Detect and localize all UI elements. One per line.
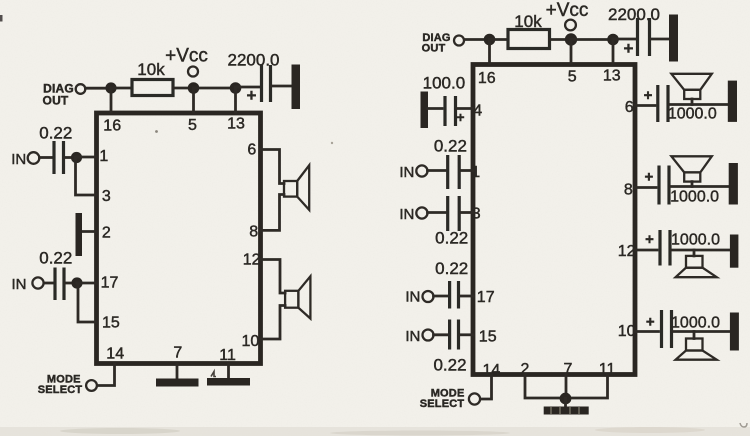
svg-text:OUT: OUT [43, 94, 69, 108]
svg-text:2200.0: 2200.0 [608, 5, 660, 24]
svg-text:IN: IN [399, 164, 414, 181]
wire node13 to C1 [236, 86, 260, 89]
terminal IN1 (U2) [416, 165, 427, 176]
pin number 2 (U2) [521, 361, 530, 378]
pin number 3 (U2) [472, 205, 481, 222]
svg-text:+: + [646, 313, 655, 330]
scan artifact faint speck 2 [331, 142, 333, 144]
wire R1 to +Vcc node [173, 87, 190, 90]
svg-text:IN: IN [405, 289, 420, 306]
svg-text:10: 10 [242, 333, 260, 350]
wire pin 16 (U2) [488, 40, 491, 64]
value label 0.22 (C8) [435, 259, 468, 278]
pin number 7 (U2) [564, 361, 573, 378]
svg-text:0.22: 0.22 [434, 137, 467, 156]
node B junction [71, 277, 82, 288]
pin number 17 (U2) [477, 289, 495, 306]
node junction at pin 16 rail [105, 82, 116, 93]
wire ground to C5 [428, 107, 442, 110]
wire node B to pin 17 [77, 282, 96, 285]
pin number 1 (U2) [471, 164, 480, 181]
wire pin 7 to ground bus [565, 375, 568, 398]
label MODE SELECT (U2) [420, 388, 465, 411]
label IN (channel 2, U2) [399, 206, 414, 223]
label IN (channel 1) [11, 151, 26, 168]
scan artifact faint mark bottom-right [740, 423, 747, 427]
svg-text:1000.0: 1000.0 [668, 106, 717, 123]
wire C8 to pin 17 (U2) [460, 295, 473, 298]
capacitor C8 0.22 [450, 281, 459, 309]
pin number 6 (U2) [625, 99, 634, 116]
wire pin 11 to ground bus [566, 375, 608, 398]
terminal DIAG OUT (U2) [454, 36, 464, 46]
pin number 16 (U1) [103, 118, 121, 135]
label IN (channel 2) [12, 276, 27, 293]
capacitor C2 0.22 [54, 141, 64, 174]
node junction at pin 5 rail (U2) [565, 33, 577, 45]
scan artifact small 4-like mark above pin11 ground [211, 372, 216, 377]
pin number 4 (U2) [473, 102, 482, 119]
ground bar (C1) [292, 65, 301, 110]
pin number 2 (U1) [102, 224, 111, 241]
capacitor C5 100.0 [445, 96, 465, 126]
svg-text:0.22: 0.22 [435, 229, 468, 248]
svg-text:+: + [645, 231, 654, 248]
svg-text:1000.0: 1000.0 [670, 189, 719, 206]
wire pin 6 to C10 [635, 104, 655, 107]
svg-text:6: 6 [625, 99, 634, 116]
svg-text:17: 17 [101, 275, 119, 292]
wire pin 6 to speaker LS1 [261, 150, 284, 184]
resistor R2 10k [508, 12, 550, 49]
capacitor C9 0.22 [450, 320, 459, 350]
svg-text:IN: IN [399, 206, 414, 223]
wire C5 to pin 4 [457, 107, 473, 110]
wire pin 2 to ground bus [525, 375, 565, 398]
power +Vcc (U2) [546, 0, 589, 30]
ground bar (bus) [544, 399, 589, 415]
svg-text:6: 6 [247, 141, 256, 158]
svg-text:+: + [247, 86, 257, 105]
svg-text:12: 12 [618, 243, 636, 260]
wire pin 14 to mode select (U2) [481, 375, 492, 399]
wire pin 13 (U2) [612, 40, 615, 64]
label MODE SELECT (U1) [38, 373, 83, 396]
value label 0.22 (C9) [433, 356, 466, 375]
wire C7 to pin 3 (U2) [461, 211, 474, 214]
scan artifact bottom dirty band [0, 427, 750, 436]
speaker LS4 [671, 156, 711, 186]
pin number 1 (U1) [99, 148, 108, 165]
svg-text:8: 8 [624, 181, 633, 198]
terminal IN1 [28, 152, 40, 164]
pin number 5 (U1) [188, 117, 197, 134]
node junction at pin 13 rail (U2) [607, 34, 619, 46]
value label 0.22 (C7) [435, 229, 468, 248]
wire speaker LS2 to pin 10 [261, 306, 285, 340]
op-amp IC U1 body [97, 113, 261, 364]
svg-text:1000.0: 1000.0 [671, 232, 720, 249]
wire IN3 to C8 [434, 295, 448, 298]
svg-text:+: + [456, 109, 464, 125]
wire pin 8 to C11 [635, 186, 656, 189]
wire node13 to C4 [613, 38, 635, 41]
ground bar (C4) [669, 15, 678, 62]
capacitor C7 0.22 [448, 196, 460, 231]
terminal MODE SELECT (U1) [86, 380, 97, 391]
wire terminal to node 16 [86, 87, 108, 90]
terminal IN4 (U2) [423, 330, 434, 341]
svg-text:5: 5 [188, 117, 197, 134]
terminal IN2 (U2) [416, 207, 427, 218]
svg-text:16: 16 [103, 118, 121, 135]
svg-text:IN: IN [405, 328, 420, 345]
svg-text:11: 11 [219, 347, 236, 364]
wire C4 to ground [651, 38, 669, 41]
svg-text:10k: 10k [137, 60, 165, 79]
capacitor C6 0.22 [448, 155, 460, 189]
wire C10 to ground [670, 103, 729, 106]
svg-text:1000.0: 1000.0 [671, 314, 720, 331]
svg-text:12: 12 [243, 251, 261, 268]
svg-text:17: 17 [477, 289, 495, 306]
svg-text:13: 13 [603, 68, 621, 85]
terminal IN3 (U2) [423, 291, 434, 302]
speaker LS3 [671, 74, 711, 105]
svg-text:5: 5 [568, 68, 577, 85]
ground bar (pin 11) [207, 378, 250, 386]
label DIAG OUT (U1) [43, 82, 74, 108]
capacitor C11 1000.0 [645, 166, 720, 206]
op-amp IC U2 body [473, 65, 635, 375]
svg-text:3: 3 [472, 205, 481, 222]
speaker LS2 [285, 276, 310, 318]
wire C12 to ground [672, 249, 731, 252]
svg-text:IN: IN [11, 151, 26, 168]
wire C1 to ground [272, 85, 292, 88]
svg-text:100.0: 100.0 [423, 74, 466, 93]
wire node5 to node13 [194, 87, 233, 90]
capacitor C1 2200.0 [228, 51, 280, 106]
pin number 10 (U1) [242, 333, 260, 350]
node A junction [71, 152, 82, 163]
wire node A to pin 1 [77, 156, 97, 159]
pin number 14 (U1) [106, 346, 124, 363]
pin number 17 (U1) [101, 275, 119, 292]
wire IN1 to C6 [428, 169, 446, 172]
scan artifact faint speck [155, 130, 158, 133]
pin number 15 (U1) [102, 315, 120, 332]
wire pin 14 to mode select [98, 364, 115, 386]
svg-text:15: 15 [102, 315, 120, 332]
pin number 14 (U2) [483, 362, 501, 379]
pin number 11 (U2) [599, 361, 616, 378]
svg-text:+Vcc: +Vcc [546, 0, 589, 21]
label DIAG OUT (U2) [422, 32, 451, 55]
capacitor C3 0.22 [55, 268, 64, 301]
wire node16 to R1 [111, 87, 132, 90]
svg-text:15: 15 [479, 329, 497, 346]
wire pin 12 to speaker LS2 [261, 260, 285, 294]
wire pin 11 to ground [227, 364, 230, 379]
label IN (channel 3, U2) [405, 289, 420, 306]
speaker LS5 [676, 250, 717, 277]
svg-text:0.22: 0.22 [39, 249, 72, 268]
capacitor bar at pin 2 [76, 213, 83, 256]
speaker LS1 [284, 165, 309, 210]
wire pin 12 to C12 [635, 249, 657, 252]
ground bar (pin 7) [156, 379, 199, 387]
svg-text:8: 8 [249, 223, 258, 240]
terminal IN2 [32, 277, 43, 288]
value label 0.22 (C2) [39, 124, 72, 143]
pin number 15 (U2) [479, 329, 497, 346]
svg-text:10k: 10k [514, 12, 542, 31]
svg-text:+: + [644, 87, 653, 104]
svg-text:10: 10 [618, 323, 636, 340]
wire pin 2 stub [81, 230, 96, 233]
wire IN1 to C2 [40, 156, 53, 159]
svg-text:1: 1 [99, 148, 108, 165]
wire C11 to ground [671, 185, 729, 188]
svg-text:3: 3 [102, 188, 111, 205]
svg-text:+: + [645, 169, 654, 186]
svg-text:14: 14 [106, 346, 124, 363]
wire node A down to pin 3 [76, 158, 97, 196]
terminal DIAG OUT (U1) [76, 84, 86, 94]
scan artifact mark top-left edge [0, 15, 3, 22]
label IN (channel 1, U2) [399, 164, 414, 181]
capacitor C13 1000.0 [646, 310, 720, 348]
value label 0.22 (C3) [39, 249, 72, 268]
pin number 5 (U2) [568, 68, 577, 85]
svg-text:16: 16 [478, 70, 496, 87]
wire C6 to pin 1 (U2) [461, 169, 474, 172]
pin number 8 (U1) [249, 223, 258, 240]
wire pin 13 [234, 88, 237, 112]
pin number 13 (U1) [227, 116, 245, 133]
wire pin 7 to ground [176, 364, 179, 379]
svg-text:0.22: 0.22 [39, 124, 72, 143]
svg-text:7: 7 [173, 344, 182, 361]
wire IN4 to C9 [434, 333, 448, 336]
pin number 16 (U2) [478, 70, 496, 87]
pin number 12 (U1) [243, 251, 261, 268]
wire speaker LS1 to pin 8 [261, 195, 284, 231]
wire pin 16 [110, 88, 113, 112]
ground bar (LS6) [730, 313, 739, 351]
svg-text:+Vcc: +Vcc [165, 46, 208, 67]
svg-text:2: 2 [102, 224, 111, 241]
pin number 11 (U1) [219, 347, 236, 364]
svg-text:OUT: OUT [422, 42, 446, 54]
value label 100.0 (C5) [423, 74, 466, 93]
wire pin 10 to C13 [635, 330, 659, 333]
terminal MODE SELECT (U2) [469, 393, 480, 404]
ground bar (LS5) [730, 235, 739, 268]
resistor R1 10k [132, 60, 173, 96]
pin number 10 (U2) [618, 323, 636, 340]
pin number 6 (U1) [247, 141, 256, 158]
pin number 7 (U1) [173, 344, 182, 361]
pin number 3 (U1) [102, 188, 111, 205]
wire C2 to node A [65, 156, 73, 159]
speaker LS6 [676, 332, 717, 360]
node junction at pin 5 rail [188, 82, 200, 94]
capacitor C4 2200.0 [608, 5, 660, 58]
node junction at pin 16 rail (U2) [484, 34, 496, 46]
svg-text:+: + [624, 39, 634, 58]
wire IN2 to C7 [428, 211, 446, 214]
svg-text:IN: IN [12, 276, 27, 293]
svg-text:1: 1 [471, 164, 480, 181]
svg-text:0.22: 0.22 [433, 356, 466, 375]
pin number 12 (U2) [618, 243, 636, 260]
capacitor C12 1000.0 [645, 230, 720, 266]
wire C3 to node B [66, 282, 74, 285]
label IN (channel 4, U2) [405, 328, 420, 345]
wire R2 to +Vcc node (U2) [550, 38, 567, 41]
ground bar (LS3) [728, 81, 737, 122]
ground bar (LS4) [729, 163, 738, 205]
wire C13 to ground [673, 330, 730, 333]
svg-text:0.22: 0.22 [435, 259, 468, 278]
svg-text:4: 4 [473, 102, 482, 119]
capacitor C10 1000.0 [644, 85, 717, 123]
node junction ground bus [560, 393, 572, 405]
power +Vcc (U1) [165, 46, 208, 77]
node junction at pin 13 rail [230, 82, 242, 94]
value label 0.22 (C6) [434, 137, 467, 156]
wire terminal to node 16 (U2) [465, 38, 486, 41]
wire node16 to R2 [490, 38, 509, 41]
svg-text:SELECT: SELECT [420, 398, 465, 410]
svg-text:SELECT: SELECT [38, 384, 83, 396]
wire pin 5 [192, 88, 195, 112]
wire IN2 to C3 [44, 282, 53, 285]
ground bar (C5) [421, 92, 429, 129]
wire C9 to pin 15 (U2) [460, 333, 473, 336]
pin number 13 (U2) [603, 68, 621, 85]
pin number 8 (U2) [624, 181, 633, 198]
svg-text:13: 13 [227, 116, 245, 133]
wire node5 to node13 (U2) [571, 38, 609, 41]
wire node B down to pin 15 [78, 283, 96, 322]
wire pin 5 (U2) [570, 40, 573, 64]
